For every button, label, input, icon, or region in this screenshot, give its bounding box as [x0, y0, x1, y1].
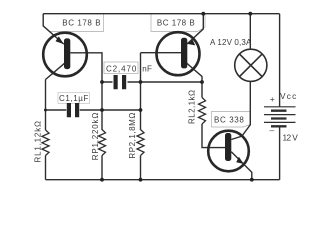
svg-text:RL1,12kΩ: RL1,12kΩ — [33, 121, 42, 163]
svg-text:nF: nF — [142, 65, 152, 74]
svg-text:RL2,1kΩ: RL2,1kΩ — [188, 90, 197, 124]
svg-text:RP2,1,8MΩ: RP2,1,8MΩ — [128, 113, 137, 159]
svg-text:–: – — [270, 125, 275, 135]
svg-text:12 V: 12 V — [283, 132, 299, 142]
svg-text:C2,470: C2,470 — [106, 65, 137, 74]
svg-text:BC 178 B: BC 178 B — [62, 18, 101, 27]
svg-text:C1,1µF: C1,1µF — [59, 94, 89, 103]
svg-text:Vcc: Vcc — [280, 91, 297, 101]
svg-text:RP1,220kΩ: RP1,220kΩ — [91, 113, 100, 161]
svg-text:BC 338: BC 338 — [214, 116, 244, 125]
svg-text:BC 178 B: BC 178 B — [157, 18, 195, 27]
svg-text:+: + — [270, 94, 275, 104]
svg-text:A 12V 0,3A: A 12V 0,3A — [210, 38, 252, 47]
